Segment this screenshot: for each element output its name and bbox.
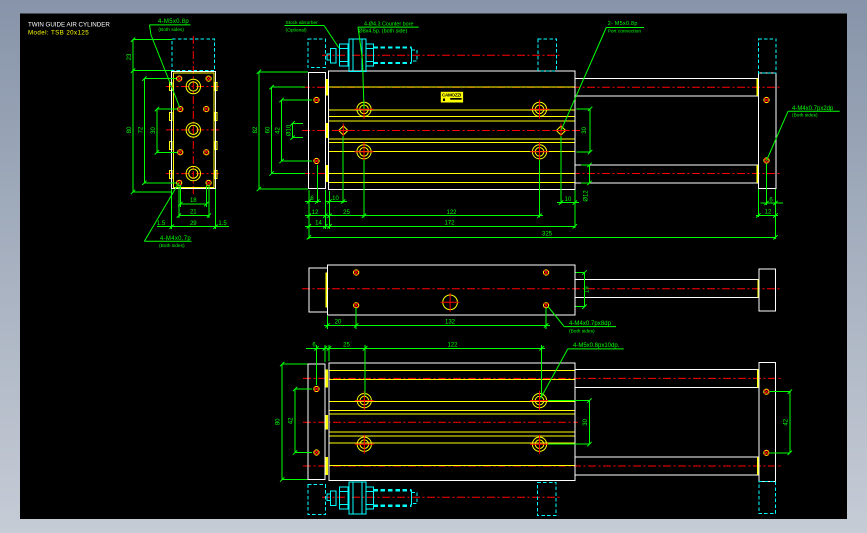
dim 80 vertical line <box>132 71 134 192</box>
left view piston rod hole middle <box>186 123 200 137</box>
left end plate white <box>308 73 325 189</box>
svg-text:Ø12: Ø12 <box>584 190 590 202</box>
main body yellow line y=142.5 <box>329 142 575 144</box>
dimension tick <box>131 190 135 194</box>
rods right <box>575 368 759 370</box>
svg-text:30: 30 <box>583 418 589 425</box>
bottom view right plate <box>759 362 776 481</box>
middle view mounting hole 2 <box>544 270 549 275</box>
bottom view red centerlines <box>303 377 782 379</box>
flanged mount <box>349 482 366 514</box>
dimension tick <box>756 213 760 217</box>
svg-text:42: 42 <box>289 417 295 424</box>
main body yellow line y=116.6 <box>329 116 575 118</box>
svg-text:10: 10 <box>332 196 339 202</box>
svg-text:23: 23 <box>127 53 133 60</box>
dimension tick <box>773 235 777 239</box>
svg-text:4-M5x0.8p: 4-M5x0.8p <box>158 19 189 25</box>
dim 29 and 1.5 line <box>157 226 229 228</box>
bottom body yellow line y=401.5 <box>329 401 575 403</box>
svg-text:Ø10: Ø10 <box>287 124 293 136</box>
dim row 12 right <box>756 214 778 216</box>
left view guide rod hole top <box>186 79 200 93</box>
left view bottom extension lines <box>171 189 173 229</box>
dimension tick <box>588 150 592 154</box>
logo plate <box>441 92 463 103</box>
svg-text:1.5: 1.5 <box>218 221 227 227</box>
svg-text:(Both sides): (Both sides) <box>158 27 184 33</box>
dimension tick <box>362 214 366 218</box>
left view yellow tab right 3 <box>215 142 217 150</box>
svg-text:(Both sides): (Both sides) <box>569 328 595 334</box>
middle view red centerline <box>302 288 780 290</box>
svg-text:(Optional): (Optional) <box>286 28 307 34</box>
dimension tick <box>155 107 159 111</box>
main view red centerlines <box>302 86 782 88</box>
dimension tick <box>307 224 311 228</box>
left view cyan stroke-extent dashed box <box>172 39 214 70</box>
extension lines <box>308 190 310 239</box>
left view yellow tab right 1 <box>215 83 217 91</box>
left view mounting hole 5 <box>178 150 183 155</box>
left view plate yellow inner outline <box>173 73 213 187</box>
yellow gasket strips <box>325 369 328 387</box>
dimension tick <box>773 213 777 217</box>
left view horizontal red centerlines through rod holes <box>166 86 221 88</box>
hex head <box>366 44 374 66</box>
svg-text:172: 172 <box>444 221 455 227</box>
dimension tick <box>142 76 146 80</box>
svg-text:122: 122 <box>447 342 458 348</box>
dimension tick <box>280 477 284 481</box>
left view yellow tab left 3 <box>170 142 172 150</box>
bottom body yellow line y=370.4 <box>329 369 575 371</box>
dim row 6 / 10 left <box>305 201 321 203</box>
middle view right plate <box>759 269 775 311</box>
middle view piston rod <box>575 279 759 281</box>
dim 30 vertical line <box>156 109 158 152</box>
svg-text:325: 325 <box>542 232 553 238</box>
svg-text:19: 19 <box>585 286 591 293</box>
middle view left plate <box>309 268 327 312</box>
dimension tick <box>573 224 577 228</box>
left view guide rod hole bottom <box>186 166 200 180</box>
svg-text:CAMOZZI: CAMOZZI <box>442 93 461 98</box>
dimension tick <box>341 199 345 203</box>
right end plate white <box>758 73 776 189</box>
svg-text:21: 21 <box>190 210 197 216</box>
dimension tick <box>279 98 283 102</box>
dim 23 vertical line <box>132 40 134 71</box>
dimension tick <box>587 398 591 402</box>
yellow gasket strips left <box>326 79 329 96</box>
svg-text:12: 12 <box>312 210 319 216</box>
main body yellow line y=87.1 <box>329 86 575 88</box>
dimension tick <box>363 346 367 350</box>
dim 21 line <box>179 215 209 217</box>
middle view yellow strip left <box>326 273 328 308</box>
middle view center circle <box>443 295 458 310</box>
absorber collar <box>331 49 336 64</box>
dimension tick <box>573 200 577 204</box>
middle view mounting hole 3 <box>354 303 359 308</box>
upper guide rod to right <box>575 77 759 79</box>
dimension tick <box>587 442 591 446</box>
svg-text:4-M5x0.8px10dp.: 4-M5x0.8px10dp. <box>573 343 620 349</box>
bottom body yellow line y=431.8 <box>329 431 575 433</box>
top dim row extensions <box>316 345 318 385</box>
main body yellow line y=151.3 <box>329 150 575 152</box>
dimension tick <box>582 305 586 309</box>
dimension tick <box>587 163 591 167</box>
middle view body <box>328 265 575 315</box>
stock absorber dashed body <box>308 39 326 67</box>
svg-text:12: 12 <box>765 210 772 216</box>
dimension tick <box>325 323 329 327</box>
main body white outline <box>329 71 575 190</box>
flanged mount <box>349 39 366 71</box>
dimension tick <box>788 390 792 394</box>
dimension tick <box>155 150 159 154</box>
left view mounting hole 7 <box>177 180 182 185</box>
right plate dashed extension below <box>759 481 776 513</box>
socket bolts <box>355 100 374 119</box>
dim 42 bracket far right <box>789 392 791 453</box>
main body yellow line y=109.9 <box>329 109 575 111</box>
svg-text:18: 18 <box>190 198 197 204</box>
dimension tick <box>307 214 311 218</box>
dimension tick <box>307 199 311 203</box>
svg-text:25: 25 <box>343 210 350 216</box>
dim 30 right <box>589 109 591 152</box>
dim 82 <box>258 72 260 189</box>
leader to bottom hole <box>144 183 179 241</box>
svg-text:(Both sides): (Both sides) <box>159 243 185 249</box>
port boss dashed bottom <box>538 482 557 515</box>
bottom view socket bolts <box>355 391 374 410</box>
dimension tick <box>559 200 563 204</box>
yellow gasket strips at right plate <box>757 78 759 96</box>
dim row 325 <box>309 236 776 238</box>
main body yellow line y=138.9 <box>329 138 575 140</box>
middle view dims <box>327 316 329 329</box>
dim dia10 <box>292 123 294 137</box>
left view yellow tab left 4 <box>170 171 172 179</box>
dimension tick <box>207 213 211 217</box>
dim row 14 / 172 <box>305 225 575 227</box>
svg-text:132: 132 <box>445 320 456 326</box>
main body yellow line y=173.3 <box>329 172 575 174</box>
left view mounting hole 3 <box>178 107 183 112</box>
bottom body yellow line y=410.3 <box>329 409 575 411</box>
dimension tick <box>323 224 327 228</box>
bottom body yellow line y=413.9 <box>329 413 575 415</box>
middle view mounting hole 1 <box>354 270 359 275</box>
dim 42 bracket <box>294 389 296 453</box>
dimension tick <box>269 85 273 89</box>
dimension tick <box>290 136 294 140</box>
dim 60 <box>271 87 273 173</box>
dim dia12 <box>589 165 591 183</box>
dimension tick <box>582 270 586 274</box>
svg-text:122: 122 <box>446 210 457 216</box>
dimension tick <box>213 225 217 229</box>
dimension tick <box>280 362 284 366</box>
svg-text:72: 72 <box>138 126 144 133</box>
dimension tick <box>537 214 541 218</box>
dimension tick <box>788 451 792 455</box>
svg-text:Port connection: Port connection <box>608 29 642 35</box>
main body yellow line y=182.4 <box>329 181 575 183</box>
bottom view body <box>329 363 575 480</box>
dimension tick <box>131 69 135 73</box>
leader to hole <box>150 25 181 108</box>
dimension tick <box>354 323 358 327</box>
dimension tick <box>170 225 174 229</box>
dim 18 line <box>180 203 206 205</box>
dimension tick <box>544 323 548 327</box>
dimension tick <box>539 346 543 350</box>
left view mounting hole 6 <box>204 150 209 155</box>
dimension tick <box>290 121 294 125</box>
dimension tick <box>257 187 261 191</box>
bottom body yellow line y=465.7 <box>329 465 575 467</box>
right plate dashed extension above <box>758 39 776 73</box>
svg-text:30: 30 <box>582 126 588 133</box>
dimension tick <box>293 387 297 391</box>
svg-text:20: 20 <box>335 320 342 326</box>
left view mounting hole 4 <box>204 107 209 112</box>
dimension tick <box>177 213 181 217</box>
svg-text:14: 14 <box>315 221 322 227</box>
dimension tick <box>204 202 208 206</box>
bottom view left plate <box>308 364 325 479</box>
left view yellow tab left 1 <box>170 83 172 91</box>
middle view mounting hole 4 <box>544 303 549 308</box>
svg-text:80: 80 <box>276 418 282 425</box>
threaded rod dashed <box>373 489 411 491</box>
dim 72 vertical line <box>143 79 145 183</box>
port boss dashed <box>538 39 556 71</box>
svg-text:30: 30 <box>151 127 157 134</box>
dimension tick <box>764 201 768 205</box>
dim 30 bracket right <box>588 401 590 445</box>
threaded rod dashed <box>373 46 411 48</box>
svg-text:82: 82 <box>253 126 259 133</box>
dimension tick <box>323 346 327 350</box>
dim 19 bracket <box>584 273 586 307</box>
dimension tick <box>327 346 331 350</box>
svg-text:25: 25 <box>343 342 350 348</box>
left plate bolts <box>314 97 319 102</box>
svg-text:42: 42 <box>276 127 282 134</box>
left view yellow tab right 4 <box>215 171 217 179</box>
hex nut <box>340 44 348 66</box>
bottom body yellow line y=442.9 <box>329 442 575 444</box>
dimension tick <box>588 107 592 111</box>
svg-text:Ø8x4.5p. (both side): Ø8x4.5p. (both side) <box>359 28 408 34</box>
dimension tick <box>279 159 283 163</box>
hex head <box>366 487 374 509</box>
dimension tick <box>323 214 327 218</box>
dimension tick <box>315 199 319 203</box>
lower guide rod to right <box>575 164 759 166</box>
dim row 10 right / 6 right <box>557 202 579 204</box>
svg-text:29: 29 <box>190 221 197 227</box>
main body yellow line y=121.0 <box>329 120 575 122</box>
svg-text:4-Ø4.3 Counter bore: 4-Ø4.3 Counter bore <box>364 21 413 27</box>
dimension tick <box>327 214 331 218</box>
hex nut <box>340 487 348 509</box>
absorber red centerline <box>322 54 561 56</box>
left view mounting hole 1 <box>177 76 182 81</box>
dimension tick <box>587 181 591 185</box>
dimension tick <box>773 201 777 205</box>
left view vertical red centerline <box>192 36 194 196</box>
dimension tick <box>142 181 146 185</box>
dimension tick <box>314 346 318 350</box>
left view plate white outline <box>172 72 216 189</box>
svg-text:(Both sides): (Both sides) <box>792 112 818 118</box>
bottom body yellow line y=436.2 <box>329 435 575 437</box>
svg-text:60: 60 <box>266 126 272 133</box>
bottom stock absorber dashed body <box>308 485 325 515</box>
bottom body yellow line y=379.5 <box>329 379 575 381</box>
left view yellow tab left 2 <box>170 113 172 121</box>
dimension tick <box>131 38 135 42</box>
bottom view plate bolts <box>314 386 319 391</box>
dim 42 <box>281 100 283 161</box>
svg-text:TWIN GUIDE AIR CYLINDER: TWIN GUIDE AIR CYLINDER <box>28 22 110 29</box>
svg-text:80: 80 <box>127 126 133 133</box>
left view mounting hole 8 <box>206 180 211 185</box>
left view mounting hole 2 <box>206 76 211 81</box>
dimension tick <box>307 235 311 239</box>
dimension tick <box>178 202 182 206</box>
svg-text:10: 10 <box>565 197 572 203</box>
svg-text:Model: TSB 20x125: Model: TSB 20x125 <box>28 30 89 37</box>
svg-text:2- M5x0.8p: 2- M5x0.8p <box>608 21 638 27</box>
dim row 12 25 122 <box>305 215 543 217</box>
port holes on piston centerline <box>336 124 350 138</box>
dimension tick <box>327 224 331 228</box>
dimension tick <box>327 199 331 203</box>
svg-text:42: 42 <box>783 418 789 425</box>
dimension tick <box>269 171 273 175</box>
left view yellow tab right 2 <box>215 113 217 121</box>
svg-text:1.5: 1.5 <box>157 221 166 227</box>
right plate bolts <box>764 97 769 102</box>
dimension tick <box>257 70 261 74</box>
collar <box>331 491 336 506</box>
dimension tick <box>293 450 297 454</box>
dim 80 bracket <box>281 364 283 479</box>
